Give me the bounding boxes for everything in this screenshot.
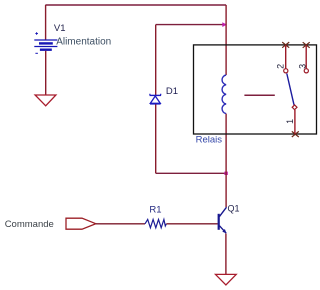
pin X mark 2 (282, 42, 289, 48)
resistor R1 (145, 219, 166, 227)
ground Q1 (216, 274, 237, 285)
wire main vertical upper (225, 5, 227, 75)
wire tag to R1 (96, 223, 145, 225)
ground V1 (35, 95, 56, 106)
svg-text:D1: D1 (166, 86, 178, 97)
svg-text:1: 1 (285, 119, 295, 124)
svg-text:2: 2 (275, 64, 285, 69)
wire battery top (45, 5, 47, 40)
wire battery to ground (45, 51, 47, 95)
svg-text:Q1: Q1 (228, 203, 240, 213)
common contact diamond (292, 105, 297, 110)
relay middle line (244, 94, 274, 96)
wire bottom branch (156, 172, 226, 174)
wire branch to D1 (156, 24, 226, 26)
contact circle pin 2 (284, 69, 288, 73)
wire main vertical lower (225, 114, 227, 207)
svg-text:Alimentation: Alimentation (56, 36, 111, 47)
pin wire 1 (294, 110, 296, 134)
transistor Q1 (219, 207, 227, 233)
contact circle pin 3 (304, 69, 308, 73)
wire emitter to ground (225, 234, 227, 275)
junction dot (224, 172, 227, 175)
svg-text:3: 3 (297, 64, 307, 69)
coil (relay) (222, 75, 226, 114)
pin X mark 3 (303, 42, 310, 48)
connector tag Commande (66, 218, 96, 229)
emitter arrow (222, 229, 226, 233)
svg-text:Relais: Relais (196, 135, 223, 146)
battery V1 (34, 32, 57, 53)
pin wire 3 (305, 45, 307, 69)
wire D1 lower (155, 104, 157, 173)
diode D1 (150, 94, 161, 104)
pin X mark 1 (292, 131, 299, 137)
svg-text:Commande: Commande (5, 219, 54, 230)
svg-text:R1: R1 (149, 205, 161, 216)
junction arrow (222, 22, 227, 27)
switch blade (287, 74, 294, 105)
svg-text:V1: V1 (54, 23, 66, 34)
wire D1 upper (155, 25, 157, 96)
relay box (194, 45, 317, 134)
wire top rail from V1 to relay net (45, 4, 226, 6)
wire R1 to Q1 base (166, 223, 217, 225)
pin wire 2 (285, 45, 287, 69)
